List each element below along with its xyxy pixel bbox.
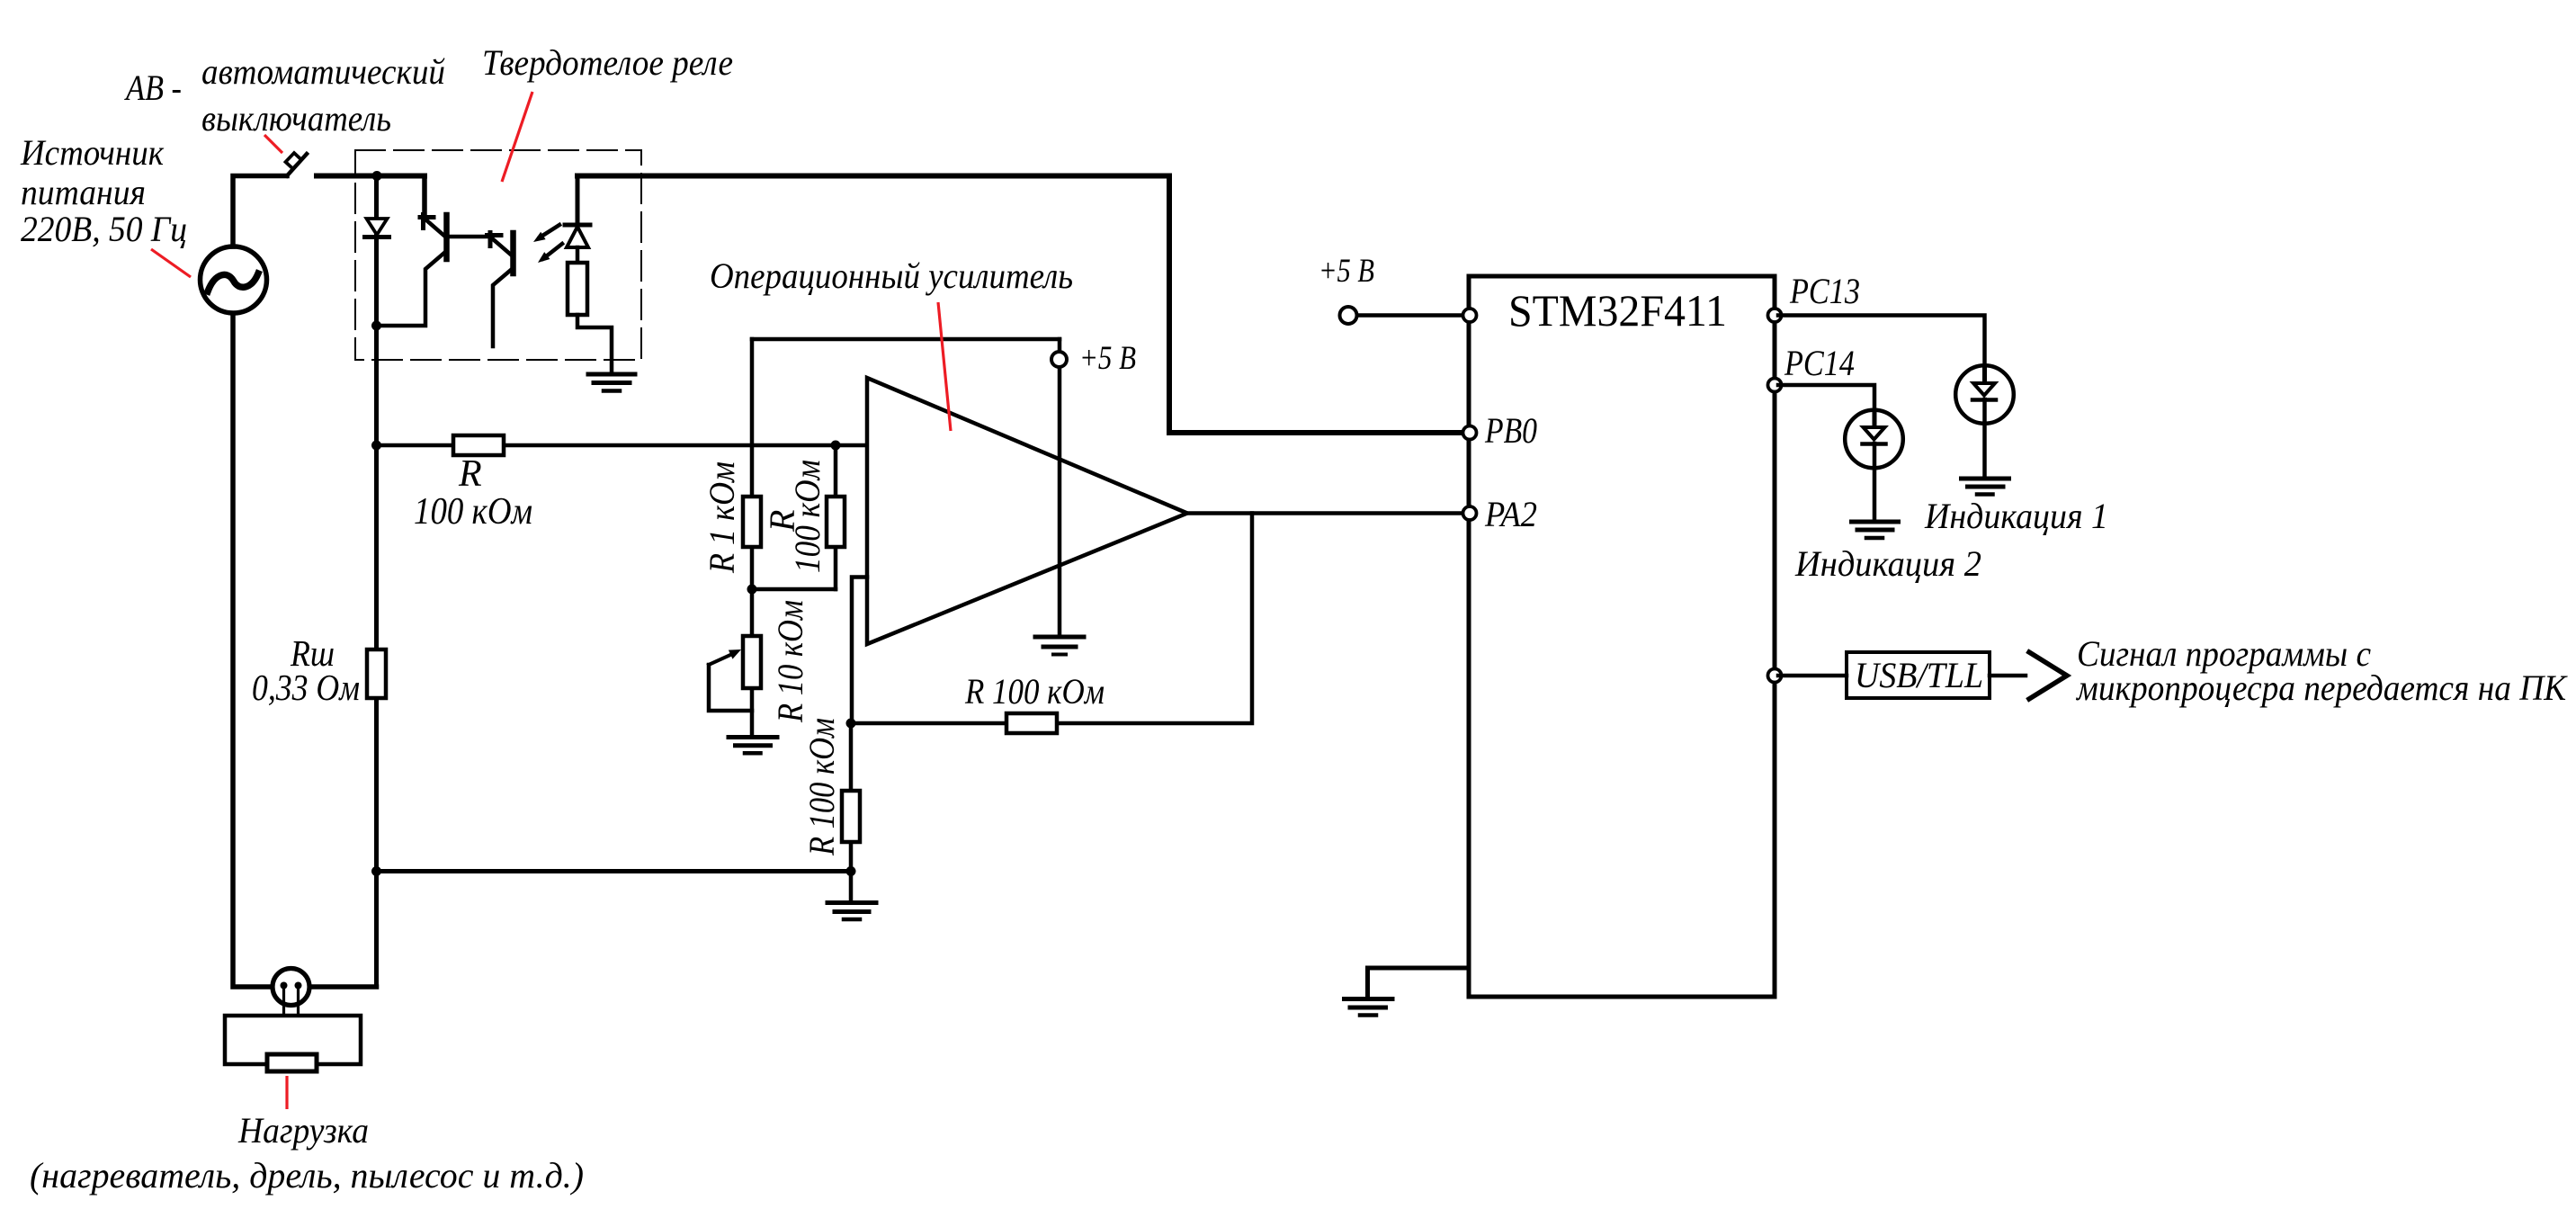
svg-text:выключатель: выключатель	[201, 98, 391, 139]
USB/TLL converter box	[1847, 652, 1990, 698]
resistor R 100 kOm feedback horizontal	[1006, 713, 1057, 733]
Q1 collector path down-left to junction	[377, 253, 445, 326]
potentiometer R 10 kOm body	[743, 636, 761, 688]
ground (LED1)	[1962, 479, 2009, 495]
light arrow 2 (optical coupling)	[543, 244, 562, 259]
junction node at divider bottom rail	[747, 585, 757, 595]
STM32F411 MCU box	[1469, 276, 1775, 997]
wire: lower R 100 kOm to ground rail	[849, 723, 854, 872]
LED of solid state relay: top lead	[576, 176, 580, 226]
wire: AC source top lead and horizontal to breaker	[233, 176, 287, 247]
svg-text:R 10 кОм: R 10 кОм	[770, 600, 810, 723]
solid state relay dashed box	[355, 150, 641, 360]
wire: left vertical main line through diode and Rsh	[374, 176, 379, 988]
op-amp U1 triangle	[867, 378, 1187, 644]
svg-text:R 100 кОм: R 100 кОм	[964, 671, 1105, 712]
leader: power source label to AC circle	[151, 249, 191, 277]
Q2 base bar	[510, 233, 516, 273]
svg-text:R: R	[458, 453, 482, 495]
wire: R1kOm branch vertical	[750, 339, 755, 589]
wire: MCU ground	[1368, 968, 1470, 999]
junction node at top of opto input	[372, 171, 382, 181]
pin +5V of MCU	[1463, 309, 1477, 322]
svg-text:USB/TLL: USB/TLL	[1855, 655, 1983, 695]
wire: ground stub	[849, 872, 854, 901]
svg-text:+5 В: +5 В	[1319, 253, 1374, 290]
resistor R 100 kOm vertical (divider)	[827, 497, 845, 547]
svg-text:100 кОм: 100 кОм	[787, 460, 827, 573]
resistor R 1 kOm vertical	[743, 497, 761, 547]
transistor Q2 (middle of optocoupler): arrowhead bars	[487, 233, 502, 237]
ground (potentiometer)	[729, 738, 777, 754]
load box	[225, 1016, 361, 1064]
breaker switch AB body (rotated square)	[286, 153, 302, 169]
svg-text:питания: питания	[21, 172, 146, 212]
LED triangle (up)	[567, 227, 588, 247]
svg-text:Нагрузка: Нагрузка	[237, 1110, 369, 1151]
wire: bottom of right branch to plug	[310, 984, 377, 990]
Q2 collector stub down-left	[493, 270, 511, 346]
Q1 base bar	[443, 215, 450, 259]
wire: breaker to optocoupler input, junction at 419	[317, 174, 425, 179]
svg-text:PA2: PA2	[1484, 494, 1537, 534]
wire: bottom rail from shunt to ground point	[377, 869, 852, 873]
+5V terminal circle (MCU supply)	[1340, 307, 1357, 324]
load resistor element	[267, 1054, 317, 1071]
sine symbol inside AC source	[208, 273, 258, 291]
ground (solid state relay)	[588, 374, 635, 391]
wire: UART pin to USB/TLL box	[1778, 674, 1847, 678]
ground (op-amp)	[1035, 637, 1084, 655]
junction node on left main line	[371, 441, 381, 451]
plug pins	[281, 982, 288, 990]
svg-text:Индикация 1: Индикация 1	[1924, 496, 2108, 536]
resistor Rsh 0.33 Om shunt	[367, 649, 386, 698]
wire: divider bottom rail	[752, 587, 836, 592]
ground (LED2)	[1852, 522, 1899, 538]
svg-text:220В, 50 Гц: 220В, 50 Гц	[21, 209, 187, 249]
wire: LED2 to ground	[1873, 443, 1877, 522]
leader: op-amp label to triangle	[938, 302, 951, 431]
Q1 base lead to Q2	[448, 235, 489, 239]
svg-text:Операционный усилитель: Операционный усилитель	[710, 255, 1073, 296]
pin PC14 of MCU	[1768, 379, 1782, 392]
transistor Q1 (left of optocoupler): emitter wire from top	[377, 176, 425, 218]
svg-text:0,33 Ом: 0,33 Ом	[252, 667, 360, 708]
potentiometer wiper return wire	[709, 665, 752, 711]
resistor R 100 kOm (series input) horizontal	[377, 443, 868, 448]
wire: +5V feed down through op-amp to ground	[1058, 339, 1062, 637]
svg-text:автоматический: автоматический	[201, 51, 445, 92]
pin PA2 of MCU	[1463, 506, 1477, 520]
wire: USB/TLL output	[1990, 674, 2026, 678]
svg-text:+5 В: +5 В	[1079, 340, 1136, 377]
pin PC13 of MCU	[1768, 309, 1782, 322]
wire: relay resistor to ground	[577, 315, 612, 373]
+5V terminal circle (op-amp supply)	[1051, 352, 1067, 367]
svg-text:100 кОм: 100 кОм	[414, 491, 532, 533]
plug connector circle (load)	[273, 969, 309, 1006]
svg-text:АВ -: АВ -	[123, 67, 182, 108]
wire: +5V to MCU	[1358, 313, 1466, 318]
svg-text:Источник: Источник	[20, 132, 164, 173]
junction node at ground rail	[846, 866, 856, 876]
LED1 diode symbol	[1982, 366, 1987, 383]
Q2 shaft	[492, 238, 512, 255]
pin PB0 of MCU	[1463, 426, 1477, 440]
AC source G1 220V 50Hz circle	[201, 246, 267, 313]
wire: +5V rail over op-amp	[752, 337, 1060, 342]
resistor R 100 kOm vertical (to ground)	[842, 791, 860, 842]
leader: load label to load resistor	[285, 1076, 288, 1109]
red leader lines	[151, 92, 951, 1109]
svg-text:(нагреватель, дрель, пылесос и: (нагреватель, дрель, пылесос и т.д.)	[30, 1155, 584, 1196]
resistor R (in relay) vertical	[568, 263, 587, 315]
breaker switch AB lever	[287, 154, 307, 176]
light arrow 1 (optical coupling)	[540, 225, 559, 237]
wire: LED1 to ground	[1982, 399, 1987, 479]
arrow to PC	[2029, 652, 2067, 699]
svg-text:Индикация 2: Индикация 2	[1794, 543, 1981, 584]
Q1 emitter shaft	[425, 219, 445, 237]
leader: relay label to dashed box	[502, 92, 532, 182]
ground (measuring rail)	[827, 903, 876, 920]
wire: PC13 to LED1	[1778, 316, 1985, 368]
svg-text:PC14: PC14	[1784, 343, 1855, 383]
wire: PC14 to LED2	[1778, 385, 1874, 411]
potentiometer wiper arrow	[709, 655, 730, 665]
wire: AC source bottom lead down left side	[233, 314, 273, 987]
leader: breaker label to switch	[264, 135, 282, 153]
svg-text:PC13: PC13	[1789, 271, 1860, 311]
diode D1 in opto input (triangle down)	[367, 219, 388, 235]
svg-text:PB0: PB0	[1484, 410, 1537, 451]
LED cathode bar	[565, 223, 590, 228]
svg-text:R 100 кОм: R 100 кОм	[801, 718, 842, 856]
junction node at op-amp input divider	[831, 441, 841, 451]
wire: relay output top rail to MCU PB0	[577, 176, 1466, 434]
wire: feedback from output	[851, 514, 1252, 724]
LED2 indicator circle	[1845, 410, 1903, 469]
ground (MCU)	[1345, 999, 1393, 1016]
svg-text:STM32F411: STM32F411	[1508, 285, 1727, 336]
Q1 emitter arrowhead (two bars corner)	[420, 215, 434, 219]
LED lower lead	[576, 247, 580, 263]
LED1 indicator circle	[1955, 365, 2014, 424]
wire: op-amp inverting input stub	[852, 578, 867, 723]
svg-text:микропроцесра передается на ПК: микропроцесра передается на ПК	[2075, 667, 2568, 708]
wire: R100kOm divider branch vertical	[834, 445, 838, 589]
junction node at bottom of opto input	[371, 321, 381, 331]
junction node on shunt line	[371, 866, 381, 876]
svg-text:R 1 кОм: R 1 кОм	[702, 461, 742, 574]
wire: potentiometer top lead	[750, 589, 755, 737]
junction node feedback tap	[846, 719, 856, 729]
svg-text:Твердотелое реле: Твердотелое реле	[482, 42, 733, 83]
pin UART of MCU	[1768, 669, 1782, 683]
LED2 diode symbol	[1873, 410, 1877, 427]
wire: op-amp output to PA2	[1187, 511, 1466, 515]
